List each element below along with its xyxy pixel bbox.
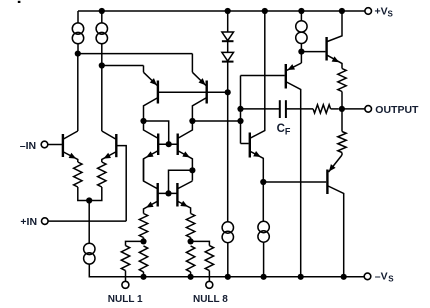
wire B drop — [191, 54, 193, 73]
wire R8 to rail — [190, 272, 192, 277]
node top rail / Q9 collector — [262, 8, 268, 14]
wire R5 to rail — [125, 271, 127, 277]
current source I5 — [222, 222, 233, 233]
svg-text:–V: –V — [375, 270, 388, 282]
svg-text:+IN: +IN — [20, 216, 37, 228]
terminal +VS — [365, 8, 372, 15]
wire null-8 jog — [191, 241, 210, 245]
svg-text:S: S — [388, 10, 394, 19]
resistor R1 (Q1 emitter) — [74, 162, 82, 187]
wire -Vs rail — [89, 276, 364, 278]
resistor R11 (lower output) — [341, 109, 343, 132]
resistor R10 (upper output) — [338, 69, 346, 92]
arrow Q5 emitter — [146, 151, 154, 157]
node cross base junction — [166, 141, 172, 147]
transistor Q1 base bar — [62, 134, 64, 157]
wire I1 to node B — [77, 44, 79, 54]
arrow Q6 emitter — [182, 151, 190, 157]
wire Q11 collector — [327, 11, 342, 42]
wire Q7 collector — [144, 159, 158, 189]
transistor Q6 base bar — [176, 134, 178, 156]
node rail/Q12 collector — [341, 274, 347, 280]
wire Q12 emitter diagonal — [329, 155, 343, 172]
node Q3 collector junction — [140, 118, 146, 124]
wire tail down to I4 — [88, 201, 90, 244]
svg-text:NULL 1: NULL 1 — [108, 294, 143, 305]
terminal NULL 1 — [125, 277, 127, 282]
node null-1 junction — [140, 238, 146, 244]
wire R4 to null node — [190, 238, 192, 242]
wire Q1 collector — [64, 131, 78, 139]
wire Q9 emitter to I6 — [262, 182, 264, 221]
node Q4 collector junction — [189, 118, 195, 124]
node Q9 emitter junction — [260, 179, 266, 185]
wire C horizontal — [102, 65, 144, 67]
terminal -VS — [364, 273, 371, 280]
diode D2 — [222, 52, 234, 61]
node null-8 junction — [188, 238, 194, 244]
node B1 junction — [237, 106, 243, 112]
wire R9h to output node — [331, 108, 339, 110]
transistor Q3 base bar — [157, 81, 159, 104]
resistor R9h (output series) — [313, 105, 331, 113]
node top rail / I3 — [298, 8, 304, 14]
wire right node to node B2 — [192, 120, 240, 122]
wire R2 to tail node — [89, 187, 102, 201]
terminal OUTPUT — [365, 106, 372, 113]
arrow Q7 emitter — [146, 202, 154, 208]
node R6 rail junction — [140, 274, 146, 280]
svg-text:NULL 8: NULL 8 — [193, 294, 228, 305]
resistor R8 (right shunt) — [186, 246, 194, 272]
wire I5 to -Vs rail — [227, 243, 229, 277]
node OUTPUT junction — [339, 106, 345, 112]
current source I2 — [96, 23, 107, 34]
wire D2 down to bias node — [227, 62, 229, 93]
wire Q6 emitter — [178, 151, 192, 170]
wire +IN riser — [117, 146, 126, 222]
wire Q6 collector — [178, 121, 192, 138]
node diode bias junction — [225, 89, 231, 95]
wire bias column down (crosses y=121 wire) — [227, 92, 229, 222]
wire C1 to R9 (crosses Q10 collector) — [286, 108, 313, 110]
wire R7 to rail — [208, 271, 210, 277]
node rail/I6 — [261, 274, 267, 280]
node Q6 emitter / Q8 collector junction — [189, 167, 195, 173]
wire Q3 collector — [144, 98, 158, 121]
wire Q10 collector to -Vs (crosses wires) — [287, 82, 301, 277]
transistor Q9 base bar — [249, 133, 251, 158]
wire -IN to Q1 base — [48, 144, 62, 146]
wire Q9 collector to +Vs — [251, 11, 265, 138]
wire Q2 emitter — [102, 152, 116, 162]
node top rail / I2 — [99, 8, 105, 14]
wire I3 to node D — [300, 43, 302, 51]
wire Q12 collector to -Vs — [328, 186, 344, 277]
resistor R5 (null 1 trim) — [121, 246, 129, 271]
arrow Q10 emitter (PNP) — [287, 64, 295, 70]
node B2 junction — [237, 118, 243, 124]
transistor Q10 base bar — [285, 64, 287, 89]
wire Q11 emitter — [327, 55, 342, 68]
node D junction — [298, 49, 304, 55]
wire Q4 collector — [192, 98, 206, 121]
svg-text:F: F — [285, 127, 291, 137]
capacitor C1 right plate — [285, 100, 287, 118]
wire Q3 emitter diagonal — [144, 72, 158, 85]
resistor R2 (Q2 emitter) — [98, 162, 106, 187]
svg-text:C: C — [277, 123, 285, 135]
wire I4 to -Vs rail — [89, 264, 93, 277]
wire B horizontal — [78, 53, 193, 55]
wire null-1 jog — [126, 241, 144, 245]
wire Q10 emitter diagonal — [287, 63, 302, 70]
arrow Q11 emitter — [332, 56, 340, 62]
terminal -IN — [41, 141, 48, 148]
node B junction — [75, 51, 81, 57]
transistor Q11 base bar — [325, 37, 327, 61]
wire output node to terminal — [342, 108, 365, 110]
transistor Q8 base bar — [176, 183, 178, 207]
wire node D to Q11 base — [301, 51, 325, 53]
wire Q8 emitter — [178, 202, 191, 214]
arrow Q8 emitter — [180, 201, 188, 207]
wire B1 to C1 (crosses x=264.8) — [241, 108, 280, 110]
wire R6 to rail — [143, 272, 145, 277]
arrow Q9 emitter — [253, 151, 261, 157]
wire Q7 emitter — [144, 202, 158, 214]
resistor R4 (Q8 emitter) — [186, 214, 194, 238]
current source I4 (tail) — [84, 243, 95, 254]
wire B-bottom to Q9 base — [241, 143, 249, 145]
wire +Vs rail — [78, 10, 365, 12]
wire D1-D2 — [227, 41, 229, 52]
wire +IN to riser (crosses tail) — [48, 220, 126, 222]
wire left node to cross bases — [144, 121, 169, 144]
node mirror base junction — [165, 190, 171, 196]
wire C drop — [143, 66, 145, 73]
terminal +IN — [42, 218, 49, 225]
wire +Vs rail drop to I1 — [77, 11, 79, 23]
transistor Q12 base bar — [326, 170, 328, 195]
wire Q8 collector — [178, 181, 192, 189]
wire Q8 collector riser — [191, 170, 193, 180]
arrow Q12 emitter (PNP) — [329, 164, 336, 171]
arrow Q2 emitter — [103, 153, 111, 159]
wire Q9 emitter to Q12 base (crosses x=300.7) — [263, 181, 326, 183]
wire I6 to -Vs rail — [263, 242, 265, 277]
resistor R7 (null 8 trim) — [205, 246, 213, 271]
wire Q8 diode-connect hook — [169, 170, 193, 193]
node top rail / Q11 collector — [339, 8, 345, 14]
resistor R6 (left shunt) — [139, 246, 147, 272]
transistor Q2 base bar — [115, 134, 117, 157]
wire cascode base rail — [159, 91, 228, 93]
transistor Q4 base bar — [205, 81, 207, 104]
wire Q5 collector — [144, 121, 158, 138]
transistor Q7 base bar — [156, 183, 158, 207]
svg-text:+V: +V — [375, 6, 388, 18]
arrow Q1 emitter — [69, 153, 77, 159]
node C junction — [99, 62, 105, 68]
node tail junction — [86, 197, 92, 203]
node rail/I5 — [225, 274, 231, 280]
node rail/Q10 collector — [298, 274, 304, 280]
current source I1 — [72, 23, 83, 34]
node top rail / diode string — [225, 8, 231, 14]
transistor Q5 base bar — [157, 134, 159, 156]
wire I2 down to node C (crosses wire B) — [101, 44, 103, 66]
wire Q9 emitter — [251, 152, 264, 183]
wire R3 to null node — [143, 238, 145, 242]
svg-text:OUTPUT: OUTPUT — [375, 104, 419, 116]
wire node column B (x=240.5) — [240, 76, 242, 144]
terminal NULL 8 — [208, 277, 210, 282]
wire R10 to output node — [341, 92, 343, 109]
wire Q1 emitter — [64, 152, 78, 162]
wire Q2 collector — [102, 131, 116, 139]
wire node D to Q10 emitter — [300, 52, 302, 63]
svg-text:S: S — [388, 275, 394, 284]
wire B-top to Q10 base (crosses x=264.8) — [241, 75, 285, 77]
capacitor C1 left plate — [279, 100, 281, 118]
wire mirror base tie — [159, 192, 177, 194]
wire R11 to Q12 emitter — [341, 153, 343, 156]
wire Q5 emitter — [144, 151, 158, 181]
wire cross pair base tie — [159, 143, 177, 145]
wire diode string top — [227, 11, 229, 32]
current source I6 — [258, 221, 269, 232]
wire R1 to tail node — [78, 187, 89, 201]
svg-text:–IN: –IN — [20, 140, 36, 152]
current source I3 — [296, 21, 307, 32]
wire Q4 emitter diagonal — [192, 72, 206, 85]
diode D1 — [222, 32, 234, 41]
stray mark top-left — [18, 1, 21, 3]
resistor R3 (Q7 emitter) — [139, 214, 147, 238]
node R8 rail junction — [188, 274, 194, 280]
arrow Q4 emitter (PNP) — [199, 78, 206, 85]
arrow Q3 emitter (PNP) — [150, 78, 157, 85]
